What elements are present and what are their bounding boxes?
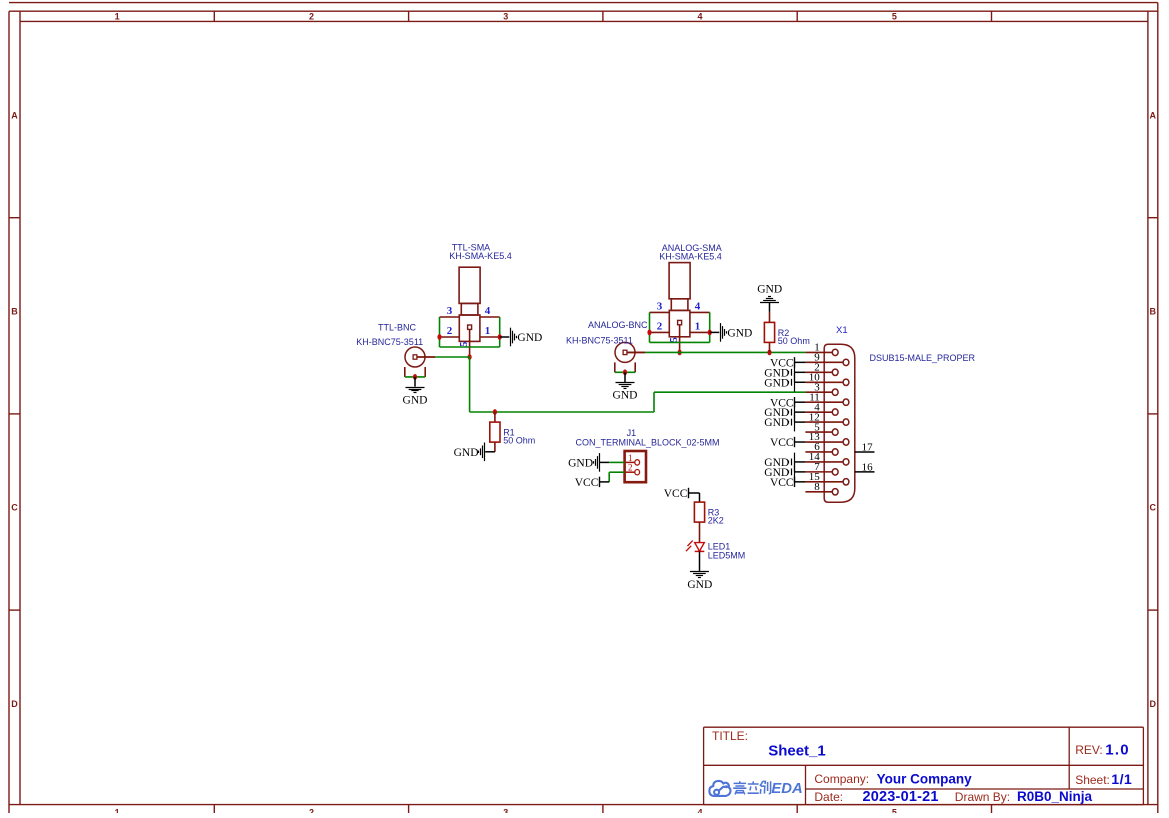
svg-text:A: A [1150, 110, 1157, 120]
svg-text:3: 3 [447, 305, 453, 317]
svg-text:D: D [1150, 699, 1157, 709]
svg-text:GND: GND [454, 447, 479, 459]
svg-text:TTL-BNC: TTL-BNC [378, 322, 417, 332]
svg-text:4: 4 [695, 301, 701, 313]
svg-text:Date:: Date: [814, 790, 843, 804]
svg-text:8: 8 [814, 481, 820, 493]
svg-text:C: C [11, 503, 18, 513]
svg-text:B: B [1150, 307, 1157, 317]
svg-text:DSUB15-MALE_PROPER: DSUB15-MALE_PROPER [870, 353, 976, 363]
svg-text:GND: GND [403, 394, 428, 406]
svg-text:VCC: VCC [575, 477, 599, 489]
svg-text:REV:: REV: [1075, 743, 1103, 757]
svg-text:Sheet_1: Sheet_1 [768, 742, 826, 759]
svg-text:2K2: 2K2 [708, 516, 724, 526]
svg-text:2: 2 [309, 808, 314, 813]
svg-text:4: 4 [698, 808, 703, 813]
svg-text:TITLE:: TITLE: [712, 729, 748, 743]
svg-text:GND: GND [517, 332, 542, 344]
svg-text:KH-BNC75-3511: KH-BNC75-3511 [356, 337, 423, 347]
svg-text:50 Ohm: 50 Ohm [503, 436, 535, 446]
svg-text:GND: GND [727, 328, 752, 340]
svg-text:GND: GND [613, 390, 638, 402]
svg-text:5: 5 [669, 337, 680, 342]
svg-text:GND: GND [687, 579, 712, 591]
svg-text:4: 4 [485, 305, 491, 317]
svg-text:2: 2 [447, 325, 453, 337]
svg-text:Company:: Company: [814, 772, 869, 786]
svg-text:B: B [11, 307, 18, 317]
svg-text:5: 5 [892, 808, 897, 813]
svg-text:EDA: EDA [771, 781, 802, 797]
svg-text:3: 3 [503, 808, 508, 813]
svg-text:VCC: VCC [770, 437, 794, 449]
svg-text:2023-01-21: 2023-01-21 [863, 789, 939, 805]
svg-text:VCC: VCC [770, 477, 794, 489]
svg-text:D: D [11, 699, 18, 709]
svg-text:3: 3 [503, 11, 508, 21]
svg-text:A: A [11, 110, 18, 120]
svg-text:1/1: 1/1 [1111, 772, 1132, 788]
svg-text:17: 17 [862, 442, 874, 454]
svg-text:2: 2 [628, 463, 633, 473]
svg-text:ANALOG-BNC: ANALOG-BNC [588, 320, 648, 330]
svg-text:GND: GND [757, 284, 782, 296]
svg-text:LED5MM: LED5MM [708, 550, 746, 560]
svg-text:Your Company: Your Company [877, 771, 972, 786]
svg-text:KH-SMA-KE5.4: KH-SMA-KE5.4 [659, 252, 722, 262]
svg-text:Sheet:: Sheet: [1075, 773, 1110, 787]
svg-text:GND: GND [568, 458, 593, 470]
svg-text:1.0: 1.0 [1105, 742, 1129, 759]
svg-text:GND: GND [764, 377, 789, 389]
svg-text:2: 2 [657, 321, 663, 333]
svg-text:KH-SMA-KE5.4: KH-SMA-KE5.4 [449, 251, 512, 261]
svg-text:3: 3 [657, 301, 663, 313]
svg-text:C: C [1150, 503, 1157, 513]
svg-text:1: 1 [115, 11, 120, 21]
svg-text:1: 1 [485, 325, 491, 337]
svg-text:5: 5 [892, 11, 897, 21]
svg-text:1: 1 [115, 808, 120, 813]
svg-text:GND: GND [764, 417, 789, 429]
svg-text:1: 1 [695, 321, 701, 333]
svg-text:16: 16 [862, 462, 874, 474]
svg-text:50 Ohm: 50 Ohm [778, 336, 810, 346]
svg-text:2: 2 [309, 11, 314, 21]
svg-text:Drawn By:: Drawn By: [955, 790, 1010, 804]
svg-text:1: 1 [628, 453, 633, 463]
svg-text:VCC: VCC [664, 488, 688, 500]
svg-text:4: 4 [698, 11, 703, 21]
svg-text:KH-BNC75-3511: KH-BNC75-3511 [566, 336, 633, 346]
svg-text:CON_TERMINAL_BLOCK_02-5MM: CON_TERMINAL_BLOCK_02-5MM [576, 437, 720, 447]
svg-text:X1: X1 [836, 325, 848, 336]
svg-text:R0B0_Ninja: R0B0_Ninja [1017, 789, 1093, 804]
svg-text:5: 5 [459, 342, 470, 347]
